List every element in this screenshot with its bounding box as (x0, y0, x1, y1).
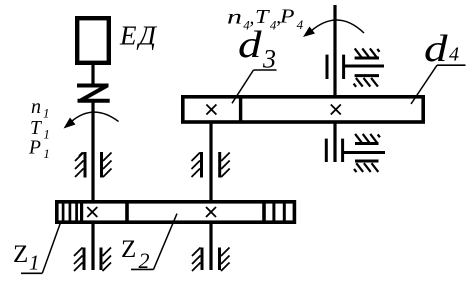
support wall lower (below gear) (343, 144, 385, 162)
divider z1/z2 (125, 202, 129, 222)
rotation arrow shaft 4 (311, 20, 364, 33)
svg-text:ЕД: ЕД (119, 21, 158, 51)
bearing shaft 1 upper (85, 152, 102, 178)
x mark shaft 2 on d3 (206, 105, 216, 115)
bearing shaft 2 lower (202, 248, 220, 271)
shaft 4 upper segment (333, 5, 336, 96)
coupling (elastic) on shaft 1 (77, 86, 110, 101)
underline d3 (254, 69, 277, 71)
shaft 1 lower segment (91, 223, 94, 270)
gear block rectangle (z1-z2) (57, 202, 295, 222)
x mark shaft 1 on gear (87, 207, 97, 217)
gear z1 spline stripes (63, 202, 82, 222)
support wall upper (above gear) (344, 58, 384, 76)
bearing shaft 1 lower (84, 248, 101, 271)
underline z1 (21, 272, 42, 274)
leader d4 (411, 65, 437, 104)
svg-text:d: d (238, 24, 262, 66)
bearing shaft 2 upper (202, 152, 220, 178)
underline d4 (437, 64, 466, 66)
svg-text:d: d (424, 28, 448, 70)
svg-text:n: n (227, 7, 242, 29)
leader d3 (232, 70, 254, 103)
motor ЕД box (77, 18, 109, 63)
divider d3/d4 (239, 97, 242, 122)
x mark shaft 4 on d4 (331, 105, 341, 115)
shaft 2 main segment (209, 122, 212, 201)
bearing shaft 4 upper (327, 55, 344, 79)
svg-text:4: 4 (297, 17, 304, 32)
underline z2 (131, 268, 154, 270)
svg-text:3: 3 (262, 45, 276, 74)
shaft 2 lower segment (209, 223, 212, 270)
leader z1 (42, 224, 60, 274)
bearing shaft 4 lower (326, 139, 342, 162)
svg-text:Z: Z (13, 241, 28, 268)
wheel block rectangle (d3-d4) (183, 97, 423, 122)
divider right striped section (262, 202, 266, 222)
svg-text:,: , (250, 8, 255, 29)
right stripes (274, 202, 284, 222)
x mark shaft 2 on gear (206, 207, 216, 217)
leader z2 (154, 214, 178, 270)
rotation arrow shaft 1 (72, 112, 119, 121)
svg-text:1: 1 (29, 251, 40, 275)
shaft 1 upper segment (91, 63, 94, 85)
shaft 1 main segment (91, 101, 94, 201)
svg-text:T: T (255, 7, 270, 28)
svg-text:P: P (279, 7, 295, 28)
svg-text:Z: Z (121, 236, 136, 263)
svg-text:4: 4 (449, 44, 459, 66)
shaft 4 lower segment (333, 123, 336, 162)
